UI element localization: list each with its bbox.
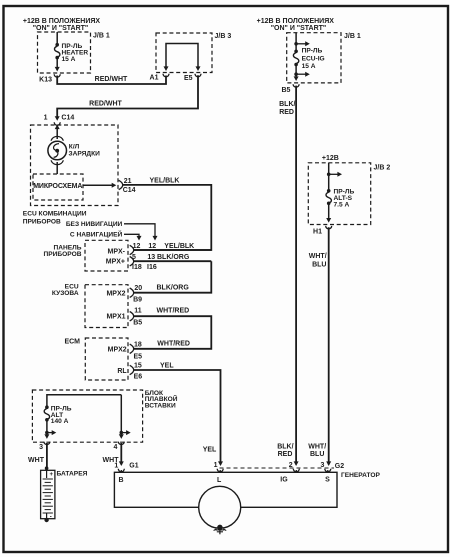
svg-text:G2: G2 [335,463,344,470]
pin H1 connector [313,226,332,236]
svg-text:BLK/: BLK/ [279,101,295,108]
wire RED/WHT K13 to A1 [57,76,166,85]
svg-text:A1: A1 [150,75,159,82]
svg-text:11: 11 [134,308,142,315]
svg-text:WHT/RED: WHT/RED [157,340,190,347]
fusible link block dashed box BLOK PLAVKOJ VSTAVKI [32,390,177,442]
svg-text:RED/WHT: RED/WHT [89,100,122,107]
svg-text:140 А: 140 А [51,418,69,425]
svg-text:E6: E6 [134,373,143,380]
engine ECM dashed box [64,338,128,380]
svg-text:2: 2 [289,462,293,469]
svg-text:MPX+: MPX+ [106,259,125,266]
svg-text:20: 20 [134,285,142,292]
pin 2 G2 connector [289,462,300,472]
svg-text:MPX1: MPX1 [106,314,125,321]
svg-text:B5: B5 [281,87,290,94]
svg-text:21: 21 [124,178,132,185]
svg-text:18: 18 [134,341,142,348]
svg-text:YEL: YEL [203,447,217,454]
internal bridge wire A1 to E5 [164,44,201,72]
svg-text:"ON" И "START": "ON" И "START" [271,25,327,32]
svg-text:WHT/: WHT/ [308,443,326,450]
pin 3 connector [39,442,50,451]
svg-text:12: 12 [148,243,156,250]
junction block J/B 2 [308,163,390,225]
pin MPX- row with labels 12 12 YEL/BLK [108,243,212,256]
svg-text:J/B 2: J/B 2 [374,165,391,172]
ground symbol [214,525,227,535]
svg-text:+: + [50,472,54,478]
pin RL row ECM 15 YEL [117,362,174,380]
wire BLK/ORG MPX+ to MPX2 [134,261,211,293]
svg-text:B9: B9 [133,297,142,304]
pin MPX2 row ECM 18 WHT/RED [108,340,190,360]
svg-text:15: 15 [134,362,142,369]
svg-text:YEL/BLK: YEL/BLK [150,178,180,185]
pin B5 connector [281,84,299,94]
svg-text:I18: I18 [132,264,142,271]
fuse ALT 140A [44,395,121,436]
svg-text:+12В В ПОЛОЖЕНИЯХ: +12В В ПОЛОЖЕНИЯХ [257,18,335,25]
svg-text:H1: H1 [313,229,322,236]
svg-text:МИКРОСХЕМА: МИКРОСХЕМА [33,183,82,190]
svg-text:ПР-ЛЬ: ПР-ЛЬ [302,47,323,54]
svg-text:C14: C14 [61,115,74,122]
wire WHT/RED MPX1 to ECM MPX2 [134,316,212,349]
svg-text:J/B 3: J/B 3 [215,33,232,40]
svg-text:ПРИБОРОВ: ПРИБОРОВ [23,219,61,226]
alternator circle [199,486,241,528]
svg-text:ВСТАВКИ: ВСТАВКИ [145,403,176,410]
svg-text:L: L [217,477,222,484]
body ECU dashed box ECU KUZOVA [52,284,128,328]
svg-text:C14: C14 [123,187,136,194]
svg-text:WHT/: WHT/ [309,253,327,260]
svg-text:YEL/BLK: YEL/BLK [164,243,194,250]
svg-text:K13: K13 [39,77,52,84]
svg-text:+12В В ПОЛОЖЕНИЯХ: +12В В ПОЛОЖЕНИЯХ [23,18,101,25]
svg-text:С НАВИГАЦИЕЙ: С НАВИГАЦИЕЙ [70,230,123,239]
svg-text:ECU КОМБИНАЦИИ: ECU КОМБИНАЦИИ [23,210,87,217]
svg-text:IG: IG [280,477,288,484]
fuse ECU-IG 15A with branch arrows [293,33,324,81]
svg-text:G1: G1 [129,463,138,470]
svg-text:КУЗОВА: КУЗОВА [52,290,79,297]
pin 4 connector [113,442,124,451]
svg-text:S: S [325,477,330,484]
svg-text:BLU: BLU [310,451,324,458]
svg-text:1: 1 [114,463,118,470]
svg-text:RL: RL [117,368,127,375]
label +12V supply note (right) [257,18,335,32]
pin A1 connector [150,74,169,82]
svg-text:ECU-IG: ECU-IG [302,55,325,62]
svg-text:БАТАРЕЯ: БАТАРЕЯ [57,471,88,478]
pin MPX2 row body ECU 20 BLK/ORG [106,285,189,304]
svg-text:12: 12 [133,243,141,250]
pin 1 G2 connector [214,462,224,472]
svg-text:15 А: 15 А [62,56,76,63]
svg-text:1: 1 [214,462,218,469]
label +12V supply note (left) [23,18,101,32]
fuse HEATER 15A [55,32,89,72]
svg-text:E5: E5 [184,75,193,82]
battery BATAREYA [41,470,88,522]
fuse ALT-S 7.5A with branch arrow [326,163,354,223]
wire and junction dot with branch arrow (pin 4 side) [119,395,131,439]
svg-text:RED/WHT: RED/WHT [95,76,128,83]
generator box [114,472,380,507]
wire WHT to battery [28,443,48,470]
svg-text:WHT: WHT [28,457,45,464]
svg-text:ЗАРЯДКИ: ЗАРЯДКИ [69,151,101,158]
pin 1 C14 connector [44,115,75,126]
svg-text:WHT/RED: WHT/RED [157,308,190,315]
svg-text:MPX2: MPX2 [106,291,125,298]
svg-text:MPX-: MPX- [108,248,126,255]
svg-text:3: 3 [39,444,43,451]
wire WHT to G1 [103,443,124,466]
junction block J/B 1 (left) [38,32,110,73]
junction dot with branch arrow (pin 3 side) [44,430,56,439]
wire WHT/BLU H1 to generator S [308,227,331,466]
svg-text:BLU: BLU [312,261,326,268]
svg-text:E5: E5 [134,353,143,360]
svg-text:"ON" И "START": "ON" И "START" [33,25,89,32]
wire microcircuit to pin 21 C14 [83,183,116,188]
svg-text:5: 5 [132,254,136,261]
svg-text:15 А: 15 А [302,63,316,70]
connector G2 dashed line [220,463,345,470]
pin MPX+ row with labels 5 13 BLK/ORG [106,254,212,271]
svg-text:7.5 А: 7.5 А [334,201,350,208]
svg-text:B5: B5 [133,320,142,327]
wire RED/WHT E5 to C14 pin 1 [55,75,198,121]
junction block J/B 3 [156,33,231,73]
wire BLK/RED B5 to generator IG [277,86,298,466]
svg-text:13: 13 [147,254,155,261]
label +12V (J/B 2) [322,155,339,162]
pin MPX1 row body ECU 11 WHT/RED [106,308,189,327]
svg-text:К/Л: К/Л [69,144,80,151]
svg-text:B: B [118,477,123,484]
charge indicator lamp K/L ZARYADKI [48,125,100,175]
svg-text:BLK/ORG: BLK/ORG [157,285,190,292]
svg-text:BLK/ORG: BLK/ORG [157,254,190,261]
ECU instrument cluster dashed box [23,125,118,226]
variant note S NAVIGACIEJ [70,230,142,241]
svg-text:-: - [50,514,52,520]
svg-text:J/B 1: J/B 1 [344,33,361,40]
wire YEL/BLK pin21 to MPX- [122,178,211,251]
pin 21 C14 connector [119,178,136,194]
wire YEL RL to generator L [134,370,223,466]
pin 1 G1 connector [114,463,138,473]
pin K13 connector [39,74,60,83]
svg-text:J/B 1: J/B 1 [93,33,110,40]
microcircuit box MIKROSKHEMA [33,174,83,200]
svg-text:1: 1 [44,115,48,122]
pin E5 connector [184,74,201,82]
pin 3 G2 connector [320,462,330,472]
svg-text:+12В: +12В [322,155,339,162]
svg-text:ECM: ECM [64,339,80,346]
instrument panel dashed box PANEL PRIBOROV [44,240,128,271]
svg-text:RED: RED [279,109,294,116]
svg-text:MPX2: MPX2 [108,346,127,353]
svg-text:I16: I16 [147,264,157,271]
svg-text:ГЕНЕРАТОР: ГЕНЕРАТОР [341,472,381,479]
svg-text:БЕЗ НИВИГАЦИИ: БЕЗ НИВИГАЦИИ [66,221,123,228]
svg-text:3: 3 [320,462,324,469]
svg-text:RED: RED [278,451,293,458]
variant note BEZ NIVIGACII [66,221,158,240]
svg-text:BLK/: BLK/ [277,443,293,450]
svg-text:ПРИБОРОВ: ПРИБОРОВ [44,251,82,258]
svg-text:YEL: YEL [160,363,174,370]
junction block J/B 1 (right) [287,33,361,83]
svg-text:4: 4 [113,444,117,451]
